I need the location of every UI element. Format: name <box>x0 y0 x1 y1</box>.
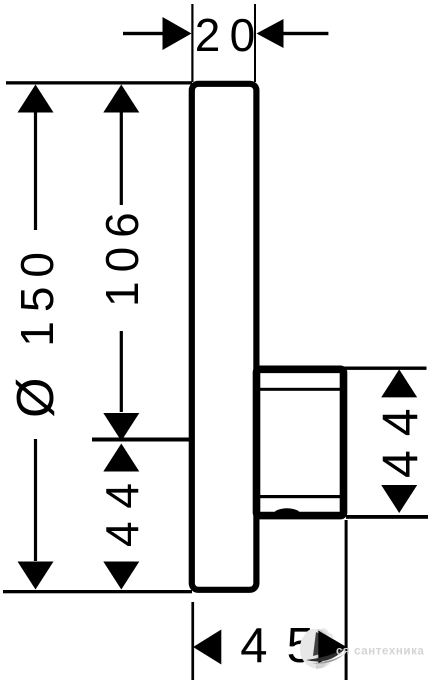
svg-text:Ø 150: Ø 150 <box>7 243 65 418</box>
svg-text:106: 106 <box>96 203 148 307</box>
svg-text:4 4: 4 4 <box>372 408 428 478</box>
svg-text:0: 0 <box>230 9 256 61</box>
svg-text:2: 2 <box>195 9 221 61</box>
svg-text:4 4: 4 4 <box>96 483 148 547</box>
svg-text:ся сантехника: ся сантехника <box>336 646 424 658</box>
svg-text:4: 4 <box>240 619 267 673</box>
